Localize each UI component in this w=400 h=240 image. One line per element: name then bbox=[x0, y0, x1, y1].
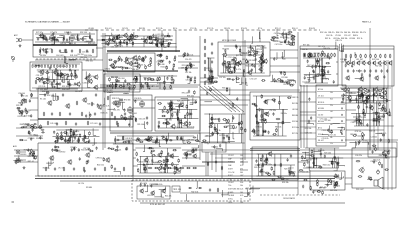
svg-text:6 VCC: 6 VCC bbox=[228, 199, 234, 201]
svg-text:11 L-CH: 11 L-CH bbox=[228, 172, 235, 174]
capacitor C92 bbox=[260, 62, 262, 66]
resistor R338 bbox=[166, 158, 168, 162]
capacitor C114 bbox=[326, 55, 328, 59]
resistor R413 bbox=[57, 132, 59, 136]
wire bbox=[30, 109, 38, 111]
svg-text:D8 .047: D8 .047 bbox=[318, 140, 324, 142]
svg-text:D85 1k: D85 1k bbox=[249, 52, 255, 54]
capacitor C178 bbox=[189, 112, 191, 116]
resistor R167 bbox=[380, 54, 382, 58]
capacitor C99 bbox=[262, 60, 264, 64]
wire bbox=[358, 88, 360, 103]
resistor R208 bbox=[89, 131, 91, 135]
resistor R287 bbox=[331, 130, 333, 134]
block STEREO SW box bbox=[250, 92, 300, 140]
svg-text:L8 .001: L8 .001 bbox=[21, 140, 27, 142]
capacitor C164 bbox=[64, 138, 66, 142]
wire bbox=[204, 100, 211, 103]
resistor R326 bbox=[178, 159, 180, 163]
resistor R417 bbox=[254, 50, 256, 54]
wire bbox=[288, 43, 295, 45]
wire bbox=[306, 65, 331, 67]
capacitor C173 bbox=[181, 122, 183, 126]
svg-text:C95 8.2k: C95 8.2k bbox=[322, 130, 329, 132]
capacitor C100 bbox=[226, 66, 228, 70]
capacitor C198 bbox=[265, 100, 267, 104]
wire bbox=[280, 36, 287, 39]
capacitor C188 bbox=[137, 139, 141, 141]
capacitor C129 bbox=[343, 93, 345, 97]
capacitor C71 bbox=[187, 53, 189, 57]
svg-text:R78 3.3k: R78 3.3k bbox=[187, 95, 194, 97]
resistor R351 bbox=[217, 188, 219, 192]
resistor R34 bbox=[26, 110, 28, 114]
resistor R248 bbox=[177, 136, 179, 140]
transistor Q47 bbox=[170, 124, 175, 130]
svg-text:R3 .001: R3 .001 bbox=[144, 162, 150, 164]
wire bbox=[86, 112, 89, 119]
capacitor C285 bbox=[67, 32, 69, 36]
wire bbox=[391, 60, 393, 190]
capacitor C65 bbox=[166, 77, 168, 81]
wire bbox=[156, 136, 158, 144]
wire bbox=[214, 124, 216, 134]
resistor R165 bbox=[370, 54, 372, 58]
resistor R65 bbox=[113, 64, 115, 68]
wire bbox=[211, 114, 213, 124]
wire bbox=[283, 109, 285, 122]
resistor R300 bbox=[373, 118, 375, 122]
resistor R32 bbox=[25, 99, 27, 103]
wire bbox=[338, 128, 345, 131]
capacitor C222 bbox=[78, 148, 80, 152]
capacitor C279 bbox=[336, 161, 338, 165]
capacitor C32 bbox=[21, 99, 25, 101]
capacitor C190 bbox=[155, 140, 157, 144]
resistor R140 bbox=[322, 72, 324, 76]
resistor R188 bbox=[59, 112, 61, 116]
wire bbox=[128, 117, 130, 124]
svg-text:R95 100u: R95 100u bbox=[137, 124, 145, 126]
resistor R229 bbox=[170, 103, 172, 107]
resistor R136 bbox=[210, 69, 212, 73]
resistor R131 bbox=[227, 78, 231, 80]
resistor R81 bbox=[126, 83, 130, 85]
resistor R143 bbox=[326, 62, 330, 64]
wire bbox=[317, 91, 345, 93]
capacitor C283 bbox=[284, 40, 286, 44]
wire bbox=[318, 75, 325, 78]
heavy rail C2 bbox=[103, 70, 178, 72]
svg-text:C9 150: C9 150 bbox=[105, 68, 111, 70]
capacitor C6 bbox=[91, 38, 93, 42]
svg-text:L51 680: L51 680 bbox=[349, 38, 355, 40]
svg-text:2.2k: 2.2k bbox=[330, 143, 333, 145]
capacitor C255 bbox=[140, 183, 142, 187]
wire bbox=[57, 38, 64, 41]
wire bbox=[207, 82, 214, 84]
svg-text:D56 .01: D56 .01 bbox=[304, 75, 310, 77]
capacitor C199 bbox=[255, 104, 257, 108]
wire bbox=[113, 143, 198, 145]
wire bbox=[283, 31, 284, 38]
wire bbox=[240, 114, 242, 143]
svg-text:D46 10k: D46 10k bbox=[344, 32, 350, 34]
wire bbox=[155, 34, 157, 41]
capacitor C176 bbox=[171, 108, 173, 112]
resistor R116 bbox=[228, 72, 232, 74]
transformer T1 bbox=[49, 34, 54, 42]
capacitor C73 bbox=[187, 75, 189, 79]
resistor R94 bbox=[171, 77, 173, 81]
wire bbox=[166, 136, 168, 144]
resistor R278 bbox=[215, 128, 217, 132]
resistor R104 bbox=[147, 84, 149, 89]
wire bbox=[78, 34, 80, 41]
wire bbox=[300, 111, 316, 113]
wire bbox=[39, 91, 46, 94]
svg-text:R48 2.2k: R48 2.2k bbox=[101, 113, 108, 115]
wire bbox=[200, 89, 300, 91]
wire bbox=[181, 119, 183, 128]
wire bbox=[315, 75, 317, 83]
wire bbox=[180, 192, 250, 194]
transistor Q65 bbox=[183, 151, 188, 157]
resistor R267 bbox=[261, 114, 263, 118]
capacitor C40 bbox=[25, 108, 27, 112]
wire bbox=[90, 32, 93, 39]
resistor R59 bbox=[113, 61, 117, 63]
svg-text:12 VCC: 12 VCC bbox=[228, 155, 235, 157]
svg-text:C26 .01: C26 .01 bbox=[341, 62, 347, 64]
resistor R152 bbox=[324, 53, 326, 57]
wire bbox=[300, 114, 316, 116]
wire bbox=[58, 82, 61, 89]
resistor R271 bbox=[223, 126, 227, 128]
svg-text:C83 330: C83 330 bbox=[233, 188, 240, 190]
block RATIO DET box bbox=[155, 97, 200, 131]
wire bbox=[13, 161, 20, 163]
svg-text:R7 1k: R7 1k bbox=[258, 28, 262, 30]
resistor R261 bbox=[265, 120, 267, 124]
transformer T3 bbox=[115, 100, 120, 108]
svg-text:R16 5.6k: R16 5.6k bbox=[21, 96, 28, 98]
wire bbox=[70, 130, 72, 143]
resistor R159 bbox=[315, 64, 317, 68]
resistor R91 bbox=[159, 77, 161, 81]
resistor R416 bbox=[111, 165, 113, 169]
resistor R212 bbox=[84, 134, 86, 138]
resistor R39 bbox=[128, 39, 132, 41]
wire bbox=[101, 35, 173, 37]
wire bbox=[212, 71, 214, 84]
capacitor C189 bbox=[166, 138, 168, 142]
capacitor C333 bbox=[312, 69, 314, 73]
capacitor C35 bbox=[29, 99, 31, 103]
capacitor C162 bbox=[57, 138, 59, 142]
resistor R29 bbox=[67, 81, 69, 85]
block MPX box bbox=[218, 42, 270, 76]
svg-text:C30 22k: C30 22k bbox=[24, 110, 31, 112]
wire bbox=[265, 154, 267, 165]
svg-text:L10 .01: L10 .01 bbox=[302, 171, 308, 173]
ground bbox=[19, 44, 22, 47]
transistor Q75 bbox=[154, 37, 159, 43]
transistor Q26 bbox=[361, 61, 365, 66]
wire bbox=[16, 127, 38, 129]
wire bbox=[208, 83, 212, 85]
svg-text:2.2k: 2.2k bbox=[240, 189, 243, 191]
capacitor C63 bbox=[135, 80, 137, 84]
svg-text:C52 33k: C52 33k bbox=[269, 110, 276, 112]
inductor L11 bbox=[108, 91, 113, 94]
svg-text:R84 100: R84 100 bbox=[379, 155, 386, 157]
resistor R117 bbox=[256, 50, 258, 54]
svg-text:R33 330: R33 330 bbox=[156, 55, 163, 57]
resistor R364 bbox=[290, 172, 294, 174]
capacitor C323 bbox=[89, 113, 91, 117]
resistor R279 bbox=[244, 128, 246, 132]
wire bbox=[256, 108, 288, 110]
capacitor C206 bbox=[226, 134, 228, 138]
transistor Q11 bbox=[128, 61, 133, 67]
svg-text:L61 10k: L61 10k bbox=[241, 82, 247, 84]
inductor L2 bbox=[60, 34, 65, 37]
wire bbox=[64, 56, 65, 63]
svg-text:.047: .047 bbox=[240, 175, 243, 177]
resistor R242 bbox=[162, 138, 166, 140]
resistor R68 bbox=[139, 55, 141, 59]
capacitor C50 bbox=[148, 36, 150, 40]
capacitor C295 bbox=[366, 123, 368, 127]
svg-text:R12 3.3k: R12 3.3k bbox=[156, 28, 163, 30]
resistor R127 bbox=[280, 81, 284, 83]
resistor R332 bbox=[151, 155, 155, 157]
resistor R321 bbox=[174, 170, 176, 174]
capacitor C95 bbox=[207, 78, 211, 80]
wire bbox=[304, 74, 331, 76]
resistor R344 bbox=[154, 167, 158, 169]
wire bbox=[350, 142, 357, 145]
resistor R368 bbox=[288, 172, 292, 174]
wire bbox=[196, 181, 197, 188]
resistor R125 bbox=[262, 53, 264, 57]
svg-text:R34 8.2k: R34 8.2k bbox=[36, 138, 43, 140]
capacitor C60 bbox=[160, 53, 162, 57]
svg-text:1k: 1k bbox=[240, 199, 242, 201]
resistor R109 bbox=[204, 46, 206, 50]
svg-text:C99 150: C99 150 bbox=[96, 158, 103, 160]
wire bbox=[66, 56, 68, 63]
wire bbox=[250, 187, 298, 189]
inductor L1 bbox=[40, 34, 45, 37]
capacitor C138 bbox=[69, 112, 71, 116]
svg-text:R9 680: R9 680 bbox=[86, 187, 92, 189]
svg-text:33k: 33k bbox=[330, 137, 333, 139]
resistor R173 bbox=[380, 97, 384, 99]
resistor R138 bbox=[303, 53, 305, 57]
transistor Q44 bbox=[97, 104, 102, 110]
wire bbox=[109, 36, 111, 43]
svg-text:C39 .01: C39 .01 bbox=[288, 168, 294, 170]
wire bbox=[300, 101, 316, 103]
svg-text:R65 330: R65 330 bbox=[139, 28, 145, 30]
resistor R149 bbox=[314, 53, 316, 57]
svg-text:L97 10k: L97 10k bbox=[256, 49, 262, 51]
resistor R166 bbox=[375, 54, 377, 58]
capacitor C31 bbox=[23, 99, 25, 103]
resistor R348 bbox=[180, 167, 184, 169]
resistor R384 bbox=[310, 155, 314, 157]
transistor Q39 bbox=[373, 92, 378, 98]
capacitor C124 bbox=[375, 69, 377, 73]
resistor R408 bbox=[385, 154, 387, 158]
transistor Q58 bbox=[67, 159, 72, 165]
capacitor C274 bbox=[373, 160, 375, 164]
wire bbox=[202, 161, 235, 163]
svg-text:R58 2.2k: R58 2.2k bbox=[256, 51, 263, 53]
wire bbox=[383, 96, 385, 104]
bus wire bbox=[140, 202, 345, 204]
resistor R295 bbox=[370, 104, 372, 108]
transistor Q71 bbox=[263, 158, 268, 164]
test point box bbox=[172, 186, 180, 192]
capacitor C286 bbox=[52, 32, 54, 36]
resistor R359 bbox=[262, 163, 264, 167]
svg-text:D22 3.3k: D22 3.3k bbox=[330, 190, 337, 192]
resistor R290 bbox=[363, 109, 365, 113]
capacitor C120 bbox=[353, 69, 355, 73]
resistor R274 bbox=[218, 118, 220, 122]
capacitor C204 bbox=[211, 121, 213, 125]
wire bbox=[246, 78, 248, 85]
wire bbox=[223, 133, 225, 143]
wire bbox=[69, 37, 71, 44]
transistor Q31 bbox=[388, 61, 392, 66]
capacitor C147 bbox=[41, 131, 45, 133]
svg-text:R1 100: R1 100 bbox=[360, 117, 366, 119]
wire bbox=[88, 81, 91, 88]
svg-text:7 B+: 7 B+ bbox=[228, 185, 232, 187]
wire bbox=[133, 107, 155, 109]
svg-text:C30 5.6k: C30 5.6k bbox=[126, 58, 133, 60]
svg-text:C16 .01: C16 .01 bbox=[378, 101, 384, 103]
wire bbox=[325, 182, 332, 185]
capacitor C102 bbox=[281, 33, 283, 37]
resistor R27 bbox=[35, 80, 37, 84]
transistor Q4 bbox=[76, 81, 81, 87]
svg-text:D21 150: D21 150 bbox=[28, 156, 35, 158]
resistor R51 bbox=[132, 41, 134, 45]
svg-text:C62 150: C62 150 bbox=[77, 54, 84, 56]
resistor R252 bbox=[272, 134, 276, 136]
svg-text:R66 2.2k: R66 2.2k bbox=[336, 32, 343, 34]
wire bbox=[233, 64, 235, 73]
capacitor C21 bbox=[75, 73, 77, 77]
svg-text:R45 330: R45 330 bbox=[254, 167, 261, 169]
wire bbox=[318, 58, 320, 75]
resistor R342 bbox=[193, 149, 195, 153]
resistor R161 bbox=[350, 54, 352, 58]
resistor R296 bbox=[376, 118, 378, 122]
resistor R432 bbox=[277, 79, 281, 81]
capacitor C4 bbox=[66, 38, 68, 42]
svg-text:C4 3.3k: C4 3.3k bbox=[274, 33, 280, 35]
reference mark bbox=[12, 201, 15, 203]
svg-text:R20 10k: R20 10k bbox=[212, 147, 219, 149]
capacitor C61 bbox=[128, 86, 130, 90]
wire bbox=[362, 101, 364, 126]
svg-text:7 B+: 7 B+ bbox=[228, 178, 232, 180]
heavy rail C1 bbox=[107, 50, 180, 52]
resistor R20 bbox=[36, 78, 40, 80]
wire bbox=[257, 122, 291, 124]
resistor R95 bbox=[157, 77, 159, 81]
resistor R346 bbox=[167, 167, 171, 169]
capacitor C284 bbox=[288, 41, 290, 45]
transistor Q21 bbox=[258, 66, 263, 72]
svg-text:C38 .047: C38 .047 bbox=[125, 85, 132, 87]
wire bbox=[146, 156, 148, 173]
transistor Q67 bbox=[139, 188, 144, 194]
resistor R337 bbox=[176, 167, 178, 171]
wire bbox=[221, 154, 223, 178]
junction bbox=[228, 63, 229, 64]
wire bbox=[321, 66, 323, 83]
wire bbox=[258, 123, 260, 136]
wire bbox=[165, 119, 167, 128]
resistor R142 bbox=[322, 66, 326, 68]
wire bbox=[257, 154, 259, 176]
capacitor C83 bbox=[251, 63, 253, 67]
capacitor C44 bbox=[144, 39, 146, 43]
terminal pin bbox=[341, 133, 342, 134]
capacitor C202 bbox=[212, 132, 214, 136]
svg-text:C85 2.2k: C85 2.2k bbox=[67, 76, 74, 78]
svg-text:D29 560: D29 560 bbox=[292, 121, 298, 123]
svg-text:.001: .001 bbox=[330, 111, 333, 113]
wire bbox=[317, 116, 345, 118]
resistor R180 bbox=[366, 97, 368, 102]
wire bbox=[144, 165, 146, 173]
capacitor C277 bbox=[337, 162, 339, 166]
wire bbox=[182, 165, 205, 167]
wire bbox=[305, 147, 339, 149]
wire bbox=[200, 104, 248, 106]
wire bbox=[360, 88, 362, 103]
wire bbox=[270, 65, 300, 67]
wire bbox=[345, 183, 352, 185]
wire bbox=[357, 134, 364, 136]
svg-text:R54 .01: R54 .01 bbox=[292, 28, 298, 30]
capacitor C155 bbox=[55, 140, 57, 144]
resistor R146 bbox=[304, 53, 306, 57]
wire bbox=[57, 70, 59, 80]
capacitor C281 bbox=[312, 161, 314, 165]
resistor R48 bbox=[134, 36, 138, 38]
resistor R162 bbox=[355, 54, 357, 58]
capacitor C146 bbox=[33, 123, 37, 125]
capacitor C139 bbox=[94, 112, 96, 116]
transistor Q59 bbox=[85, 152, 90, 158]
capacitor C30 bbox=[74, 82, 76, 86]
transistor Q50 bbox=[168, 101, 173, 107]
wire bbox=[105, 33, 112, 36]
block OUTPUT box bbox=[310, 171, 345, 190]
wire bbox=[275, 52, 278, 59]
wire bbox=[308, 148, 310, 168]
svg-text:C24 470: C24 470 bbox=[185, 59, 192, 61]
